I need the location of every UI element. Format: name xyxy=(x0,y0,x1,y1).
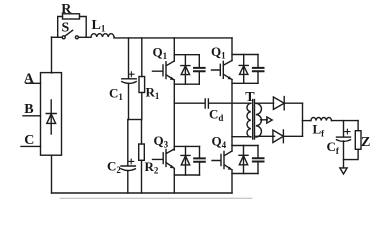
ground xyxy=(340,168,347,174)
wire output bus xyxy=(302,103,304,136)
wire top rail left stub to switch xyxy=(52,36,63,38)
wire primary bottom to right leg xyxy=(232,136,251,138)
capacitor Q1 snubber xyxy=(198,55,200,84)
resistor R1 xyxy=(139,77,145,93)
svg-text:A: A xyxy=(24,71,35,86)
resistor R branch right riser xyxy=(80,17,87,38)
diode output top xyxy=(273,97,284,110)
capacitor Cf plates xyxy=(337,136,351,138)
wire Cd to transformer primary xyxy=(210,102,251,104)
switch S left contact xyxy=(62,36,65,39)
capacitor C2 polarity plus xyxy=(129,159,134,164)
wire switch to L1 xyxy=(79,36,91,38)
wire left leg middle rail xyxy=(173,80,175,150)
transistor Q1 xyxy=(153,61,175,80)
svg-text:S: S xyxy=(62,21,70,36)
svg-text:C: C xyxy=(24,133,34,148)
wire left leg lower rail xyxy=(173,169,175,193)
wire secondary center tap xyxy=(261,119,268,121)
transformer core xyxy=(253,100,255,139)
transformer primary winding xyxy=(247,103,251,137)
wire rectifier bottom xyxy=(51,155,53,193)
node Q4 cell top xyxy=(232,145,258,147)
wire Z top lead xyxy=(357,121,359,131)
switch S right contact xyxy=(75,36,78,39)
capacitor Q4 snubber xyxy=(257,146,259,174)
transistor Q3 xyxy=(153,149,175,168)
diode D1 xyxy=(181,55,190,84)
resistor R2 xyxy=(139,144,145,160)
transistor Q2 xyxy=(212,61,233,80)
wire phase C stub xyxy=(21,145,41,147)
rectifier diode xyxy=(46,100,56,134)
node Q3 cell bottom xyxy=(174,174,199,176)
capacitor Cd xyxy=(205,99,208,108)
center tap arrow xyxy=(267,117,272,123)
wire right leg lower rail xyxy=(231,170,233,193)
rectifier bridge box xyxy=(41,73,62,156)
inductor L1 xyxy=(91,34,114,37)
capacitor C2 lead xyxy=(127,120,129,194)
capacitor Q2 snubber xyxy=(257,55,259,84)
capacitor C1 polarity plus xyxy=(129,72,134,77)
wire divider midpoint bus xyxy=(129,119,142,121)
diode D4 xyxy=(239,146,248,174)
capacitor C1 plates xyxy=(122,78,136,80)
wire secondary bottom lead xyxy=(256,135,275,137)
node Q4 cell bottom xyxy=(232,173,258,175)
wire top-left vertical from rectifier to top rail xyxy=(51,37,53,73)
resistor R2 lead xyxy=(141,120,143,194)
resistor R xyxy=(63,14,80,19)
resistor R1 lead xyxy=(141,38,143,120)
wire Z return xyxy=(344,149,359,159)
capacitor Q3 snubber xyxy=(199,146,201,175)
wire output bottom to bus xyxy=(283,135,302,137)
transistor Q4 xyxy=(212,151,232,170)
switch S blade xyxy=(65,30,73,36)
node Q1 cell top xyxy=(174,54,199,56)
wire left leg upper rail xyxy=(173,38,175,61)
diode D3 xyxy=(181,146,190,175)
diode D2 xyxy=(239,55,248,84)
diode output bottom xyxy=(273,130,284,143)
resistor R branch left riser xyxy=(58,17,63,38)
capacitor C1 lead xyxy=(128,38,130,120)
wire Cf junction lead xyxy=(343,121,345,137)
inductor Lf xyxy=(311,117,332,120)
svg-text:Z: Z xyxy=(361,135,370,150)
wire secondary top lead xyxy=(256,102,274,104)
wire scan shadow under bottom rail xyxy=(60,197,252,199)
transformer secondary winding xyxy=(256,103,262,137)
wire phase B stub xyxy=(23,115,41,117)
capacitor C2 plates xyxy=(121,165,135,167)
svg-text:B: B xyxy=(24,102,33,117)
node Q2 cell top xyxy=(232,54,258,56)
wire right leg upper rail xyxy=(231,38,233,61)
wire right leg middle rail xyxy=(231,80,233,152)
capacitor Cf lower lead xyxy=(343,141,345,168)
node Q1 cell bottom xyxy=(174,83,199,85)
wire top rail xyxy=(114,36,232,39)
wire phase A stub xyxy=(26,82,41,84)
wire bottom rail xyxy=(52,192,233,194)
node Q2 cell bottom xyxy=(232,82,258,84)
wire output top to bus xyxy=(284,102,302,104)
wire Lf to load xyxy=(332,120,359,122)
node Q3 cell top xyxy=(174,145,199,147)
capacitor Cf polarity plus xyxy=(345,129,350,134)
wire bridge midpoint to Cd xyxy=(174,102,204,104)
load Z xyxy=(355,131,361,150)
svg-text:R: R xyxy=(61,2,72,17)
wire output to Lf xyxy=(303,120,311,122)
